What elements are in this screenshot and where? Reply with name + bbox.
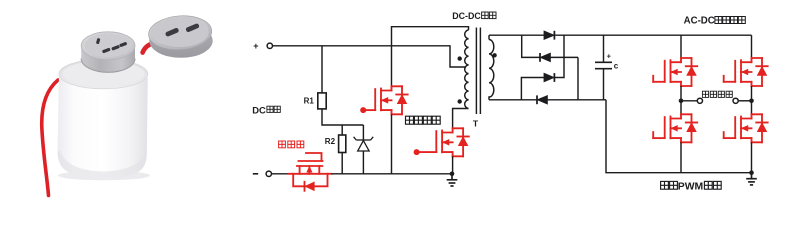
transformer T primary winding xyxy=(465,30,469,108)
svg-text:+: + xyxy=(253,41,258,51)
junction left AC node xyxy=(679,99,684,104)
diode D2 xyxy=(540,53,551,62)
transistor Q5 bridge bottom-left xyxy=(653,114,697,142)
zener diode Z1 xyxy=(354,137,374,151)
wire R2 bottom xyxy=(341,153,343,174)
terminal - xyxy=(266,171,271,176)
wire D3 anode to bus xyxy=(521,78,544,100)
transistor Q3 push-pull lower xyxy=(417,128,469,156)
polarity dot primary lower xyxy=(458,99,462,103)
wire secondary bottom row xyxy=(489,96,537,100)
wire cap top xyxy=(603,35,605,62)
capacitor C xyxy=(595,62,612,68)
wire upper source down xyxy=(391,114,393,174)
svg-text:PWM: PWM xyxy=(678,182,703,193)
label 全桥PWM控制 xyxy=(661,181,669,189)
transistor Q6 bridge top-right xyxy=(724,58,768,86)
hinge red cable xyxy=(143,42,158,52)
svg-text:R1: R1 xyxy=(304,97,315,106)
resistor R2 xyxy=(339,135,346,153)
transformer T secondary winding xyxy=(489,40,494,98)
label 防反接 xyxy=(279,141,286,148)
svg-text:AC-DC: AC-DC xyxy=(684,16,715,27)
wire zener top xyxy=(362,125,364,140)
wire R1 bottom / divider node xyxy=(322,109,363,125)
terminal AC left xyxy=(697,98,702,103)
lid top face xyxy=(147,14,212,52)
terminal AC right xyxy=(733,98,738,103)
svg-text:c: c xyxy=(614,62,619,71)
wire D2-D4 bus / - rail xyxy=(548,57,607,99)
resistor R1 xyxy=(318,93,326,109)
socket platform top face xyxy=(81,32,135,60)
wire secondary top row xyxy=(489,35,544,39)
wire - rail left xyxy=(272,173,290,175)
wire primary bottom to lower drain xyxy=(453,109,469,129)
transistor Q1 anti-reverse MOSFET xyxy=(289,153,332,191)
inverter body xyxy=(58,74,148,179)
terminal + xyxy=(267,43,272,48)
wire left leg mid xyxy=(680,86,682,114)
body bottom shading xyxy=(58,150,147,179)
junction push-pull source node xyxy=(450,172,455,177)
wire cap bottom xyxy=(603,69,605,100)
red power cable xyxy=(42,80,58,196)
polarity dot primary upper xyxy=(458,56,462,60)
junction right AC node xyxy=(749,99,754,104)
svg-text:+: + xyxy=(607,52,612,61)
transistor Q7 bridge bottom-right xyxy=(724,114,768,142)
junction bridge ground node xyxy=(749,170,754,175)
wire zener bottom xyxy=(362,151,364,174)
transformer core xyxy=(476,28,480,115)
transistor Q4 bridge top-left xyxy=(653,58,697,86)
wire D1 cathode to + rail xyxy=(555,34,752,36)
wire D2 anode to bus xyxy=(551,56,579,58)
polarity dot secondary xyxy=(492,53,496,57)
label 交流输出 xyxy=(702,91,708,97)
svg-text:R2: R2 xyxy=(325,137,336,146)
wire R1 top xyxy=(321,46,323,93)
inverter body top rim xyxy=(59,59,148,89)
socket platform side xyxy=(81,46,135,73)
wire left leg bottom xyxy=(680,142,682,172)
svg-text:DC: DC xyxy=(252,104,266,115)
svg-text:T: T xyxy=(473,119,479,129)
wire right leg mid xyxy=(751,86,753,114)
wire right leg bottom xyxy=(751,142,753,172)
wire - rail to ground xyxy=(332,173,453,175)
diode D1 xyxy=(544,31,555,40)
wire left AC stub xyxy=(681,100,697,102)
wire left leg top xyxy=(680,35,682,58)
wire - rail down to bridge bottom xyxy=(606,100,752,173)
product shadow xyxy=(58,171,150,181)
wire upper drain to primary top xyxy=(392,27,469,87)
wire right AC stub xyxy=(738,100,751,102)
ground (primary side) xyxy=(447,174,458,186)
diode D4 xyxy=(537,95,548,104)
wire right leg top xyxy=(751,35,753,58)
diode D3 xyxy=(544,73,555,82)
label - (negative input) xyxy=(253,173,258,175)
label 推挽控制 xyxy=(406,116,414,124)
USB ports xyxy=(165,23,200,37)
wire lower source down xyxy=(452,156,454,174)
wire bus secondary-top to D2 xyxy=(522,35,540,57)
lid underside xyxy=(149,24,212,58)
wire bus D1-D3 xyxy=(555,35,564,77)
wire R2 top xyxy=(341,125,343,135)
wire + rail to center tap xyxy=(273,46,467,67)
ground (bridge side) xyxy=(746,173,757,185)
transistor Q2 push-pull upper xyxy=(363,86,407,114)
AC socket slots xyxy=(96,38,127,54)
svg-text:DC-DC: DC-DC xyxy=(452,11,481,21)
